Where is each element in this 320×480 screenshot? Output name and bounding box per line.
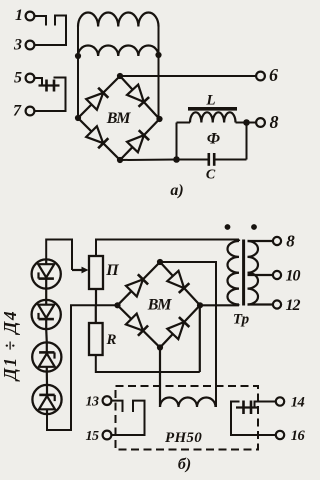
diode VM2 upper-right	[167, 271, 184, 288]
node VM1 left	[75, 115, 81, 121]
svg-text:16: 16	[291, 428, 306, 444]
terminal 5	[26, 74, 35, 83]
svg-text:13: 13	[86, 395, 100, 410]
connector X2 wire to terminal 7	[34, 78, 65, 112]
capacitor C plate 1	[208, 153, 211, 166]
connector X3 wire from 13	[111, 401, 122, 412]
wire chain D2-D3	[45, 329, 48, 342]
svg-text:15: 15	[86, 429, 100, 444]
connector X1 contact from terminal 1	[34, 16, 46, 26]
svg-text:С: С	[206, 168, 216, 183]
wire tap to terminal 10	[248, 274, 274, 276]
node VM1 bottom	[117, 157, 123, 163]
diode Д2 cathode bar	[39, 318, 54, 321]
diode Д1 circle	[32, 259, 61, 288]
wire bridge bottom to filter	[120, 159, 177, 162]
wire right vertical from W1 to bridge right vertex	[158, 27, 160, 120]
wire filter bottom left segment	[177, 159, 209, 161]
svg-text:П: П	[105, 262, 119, 279]
svg-text:6: 6	[269, 65, 278, 85]
capacitor C plate 2	[213, 153, 216, 166]
bridge VM1 diamond edges	[78, 76, 160, 160]
diode Д3 circle	[32, 342, 61, 371]
terminal 13	[103, 396, 112, 405]
diode VM1 lower-left	[86, 126, 103, 143]
svg-text:РН50: РН50	[165, 430, 202, 446]
svg-text:7: 7	[13, 103, 22, 120]
svg-text:8: 8	[270, 112, 279, 132]
wire rail corner into primary	[238, 240, 240, 242]
terminal 15	[103, 431, 112, 440]
diode Д3 wire through	[46, 342, 48, 371]
diode Д1 wire through	[45, 259, 47, 288]
diode Д3 cathode bar	[39, 351, 54, 354]
node VM2 left	[114, 302, 120, 308]
diode Д2 circle	[32, 300, 61, 329]
potentiometer P body	[89, 256, 103, 289]
winding W1 (top coil)	[78, 13, 159, 27]
polarity dot right	[251, 224, 257, 230]
wire P top to rail	[96, 240, 239, 257]
wire VM2 bottom to relay coil (left)	[159, 348, 161, 408]
diode Д1 cathode bar	[39, 277, 54, 280]
connector X4 crossing line	[236, 406, 257, 408]
terminal 8	[256, 118, 265, 127]
wire chain bottom return rail	[47, 305, 118, 430]
resistor R body	[89, 323, 103, 355]
diode Д3 triangle	[39, 354, 55, 367]
transformer secondary winding	[248, 241, 259, 305]
winding W2 (second coil)	[78, 46, 159, 57]
wire primary bottom	[238, 303, 240, 306]
svg-text:б): б)	[178, 456, 191, 473]
diode VM2 lower-right	[167, 322, 184, 339]
transformer core	[242, 240, 245, 306]
arrow to potentiometer P wiper	[72, 269, 84, 271]
wire chain D1-D2	[45, 289, 47, 300]
node VM2 top	[157, 259, 163, 265]
node filter bottom-left	[173, 156, 180, 163]
node VM2 bottom	[157, 344, 163, 350]
terminal 14	[276, 397, 284, 405]
svg-text:а): а)	[170, 182, 183, 199]
wire VM2 right to transformer	[200, 304, 239, 306]
relay coil RN50	[160, 398, 216, 408]
wire right vertex down	[199, 305, 201, 372]
wire bridge top to terminal 6	[120, 75, 256, 77]
svg-text:3: 3	[13, 37, 22, 54]
diode Д4 circle	[32, 385, 61, 414]
wire R bottom to AC rail	[96, 355, 200, 372]
connector X2 plate 2	[53, 80, 56, 92]
svg-text:Тр: Тр	[233, 312, 250, 328]
wire R top	[95, 305, 97, 323]
svg-text:8: 8	[286, 232, 295, 251]
svg-text:1: 1	[15, 7, 23, 24]
terminal 12	[273, 300, 281, 308]
wire VM2 top to relay coil (right)	[160, 262, 216, 407]
terminal 3	[26, 41, 35, 50]
transformer Tr primary winding	[228, 241, 239, 305]
junction dot left W2 end	[75, 53, 81, 59]
wire tap to terminal 8	[248, 240, 274, 242]
polarity dot left	[225, 224, 231, 230]
inductor L core bar	[188, 107, 237, 111]
terminal 10	[273, 271, 281, 279]
wire filter bottom right segment	[214, 159, 246, 161]
connector X1 contact to terminal 3	[34, 16, 66, 46]
wire left vertical from W1 to bridge left vertex	[77, 27, 79, 119]
svg-text:Ф: Ф	[207, 131, 220, 148]
connector X4 plate 2	[250, 401, 253, 415]
diode Д4 cathode bar	[39, 394, 54, 397]
diode Д2 wire through	[45, 300, 47, 329]
connector X3 second contact	[111, 401, 144, 435]
node VM1 right	[156, 116, 162, 122]
connector X4 plate 1	[242, 401, 245, 415]
connector X2 plate 1	[45, 80, 48, 92]
wire filter right vertical	[246, 123, 248, 160]
svg-text:10: 10	[286, 268, 301, 285]
diode Д4 wire through	[46, 385, 48, 414]
bridge VM2 diamond edges	[118, 262, 201, 348]
diode Д1 triangle	[38, 264, 54, 277]
diode Д2 triangle	[38, 305, 54, 318]
terminal 8 (lower)	[273, 237, 281, 245]
wire tap to terminal 12	[248, 303, 274, 305]
connector X2 wire from terminal 5	[34, 78, 42, 86]
connector X4 wire to 16	[231, 402, 276, 436]
diode Д4 triangle	[39, 396, 55, 409]
terminal 7	[26, 107, 35, 116]
regulator RN50 dashed box	[116, 386, 259, 450]
svg-text:R: R	[105, 332, 116, 348]
diode VM1 upper-left	[86, 93, 103, 110]
wire diode chain top to rail	[46, 240, 72, 271]
wire filter left vertical	[176, 123, 178, 160]
junction dot right W2 end	[155, 52, 161, 58]
svg-text:L: L	[205, 93, 215, 109]
svg-text:Д1 ÷ Д4: Д1 ÷ Д4	[0, 310, 20, 382]
svg-text:5: 5	[14, 70, 22, 87]
connector X2 crossing line	[39, 84, 60, 86]
wire P bottom	[95, 289, 97, 305]
svg-text:14: 14	[291, 395, 305, 411]
diode VM2 upper-left	[126, 279, 143, 296]
terminal 16	[276, 431, 284, 439]
node filter top-right	[243, 119, 250, 126]
svg-text:ВМ: ВМ	[106, 110, 131, 127]
diode VM1 lower-right	[127, 135, 144, 152]
node VM1 top	[117, 73, 123, 79]
connector X4 wire from 14	[255, 402, 276, 408]
node VM2 right	[197, 302, 203, 308]
terminal 1	[26, 12, 35, 21]
svg-text:12: 12	[286, 297, 301, 314]
wire chain D3-D4	[46, 372, 48, 385]
terminal 6	[256, 72, 265, 81]
diode VM2 lower-left	[126, 314, 143, 331]
diode VM1 upper-right	[127, 85, 144, 102]
wire to terminal 8	[247, 122, 257, 124]
inductor L coil	[177, 122, 191, 124]
svg-text:ВМ: ВМ	[147, 297, 172, 314]
